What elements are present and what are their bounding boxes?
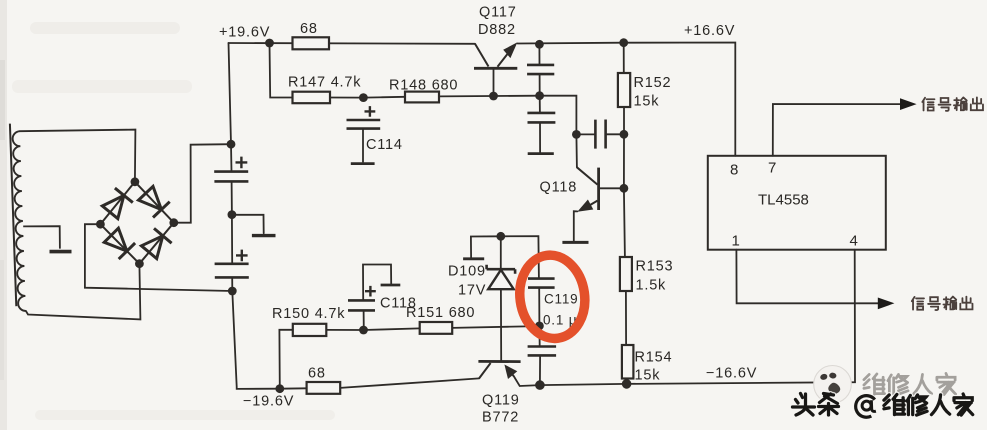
red label signal output 1 [922,97,983,110]
ground C118 stub [381,284,401,287]
wire D109 vertical [500,236,502,361]
capacitor C119 [528,279,555,288]
wire Q119 collector to rail [514,376,540,386]
ground D109 stub [463,257,484,260]
diode bridge bottom-right [139,223,173,264]
ground end C114 [362,129,364,163]
resistor R151 [420,322,453,334]
transformer T1 [10,124,72,311]
resistor R148 [405,92,439,103]
arrow signal out 2 [878,298,895,310]
watermark paw logo [814,366,852,404]
wire lower cap leads [538,326,541,385]
resistor 68 top [293,37,330,49]
wire node3 to bridge left [85,224,232,291]
svg-text:R151 680: R151 680 [406,305,475,321]
svg-text:D882: D882 [478,22,516,38]
svg-text:+16.6V: +16.6V [684,23,735,39]
watermark black text halo [793,394,839,416]
wire mid column caps [231,144,232,291]
svg-text:R150 4.7k: R150 4.7k [272,306,345,322]
arrow signal out 1 [900,98,917,110]
svg-text:R152: R152 [634,75,672,91]
scan artifacts [0,0,335,430]
diode bridge bottom-left [100,224,139,264]
resistor R152 [618,73,630,107]
transformer winding [13,131,26,311]
svg-text:4: 4 [850,233,858,250]
diode bridge top-right [135,182,174,223]
svg-text:15k: 15k [635,368,661,384]
node dots [96,38,631,393]
wire R150 down lead [279,330,292,389]
wire hcap leads [576,133,624,135]
wire node3 to -19.6V corner [232,291,279,389]
resistor R154 [622,345,634,379]
transistor Q119 [478,361,520,379]
svg-text:8: 8 [730,162,738,179]
plus polarity marks [236,106,376,296]
transformer core [10,124,16,307]
wire IC pin7 out [773,104,901,156]
wire top rail left [229,42,476,45]
svg-text:−16.6V: −16.6V [706,366,757,382]
ground node2 stub [252,234,276,237]
zener diode D109 [487,265,515,290]
wire C118 column [363,265,391,331]
highlight circle around C119 [514,251,590,343]
watermark @ [856,396,876,418]
wire Q118 emitter to ground [574,211,578,241]
wire cap column x540 [538,44,541,152]
svg-text:1: 1 [732,233,740,250]
wire bottom rail right [540,250,855,385]
wire Q118 base lead [599,187,624,189]
wire Q118 collector feed [575,134,578,167]
capacitor coupling horizontal [595,120,605,149]
wire bottom rail left [280,387,307,389]
svg-text:+19.6V: +19.6V [219,25,270,41]
svg-text:R153: R153 [636,259,674,275]
wire R150 R151 line [326,328,452,330]
svg-text:B772: B772 [482,410,519,426]
wire IC pin1 out [736,250,879,304]
ground end cap column [528,152,554,155]
svg-text:C114: C114 [366,137,403,153]
svg-text:17V: 17V [458,283,486,299]
capacitor near Q117 lower [527,113,555,123]
svg-text:1.5k: 1.5k [636,278,667,294]
capacitor lower output electrolytic [528,347,557,356]
diode bridge top-left [100,182,134,224]
wire Q119 emitter run [340,378,479,388]
svg-text:R148 680: R148 680 [389,78,458,94]
svg-text:−19.6V: −19.6V [243,394,294,410]
wire D109 node stub left [471,236,501,257]
capacitor near Q117 upper [527,65,554,74]
wire transformer bottom [26,264,140,320]
wire R151 right lead [452,326,539,328]
svg-text:Q117: Q117 [479,5,517,21]
svg-text:7: 7 [768,160,776,177]
svg-text:15k: 15k [634,94,660,110]
svg-text:68: 68 [308,366,326,382]
transistor Q117 [474,42,517,68]
capacitor C top-left electrolytic [214,172,248,182]
svg-text:R154: R154 [635,350,673,366]
resistor R147 [293,92,331,104]
svg-text:R147 4.7k: R147 4.7k [288,75,361,91]
resistor R153 [620,257,632,291]
wire R147 R148 line [330,96,540,98]
watermark gray text [864,373,956,394]
watermark black text 头条 [793,394,839,416]
svg-text:Q119: Q119 [482,393,520,409]
wire transformer top [20,130,135,182]
wire R152 column [624,43,627,384]
svg-text:Q118: Q118 [540,180,578,196]
svg-text:D109: D109 [448,264,486,280]
wire D109 node to C119 [501,236,539,278]
red label signal output 2 [912,297,973,310]
IC U1 TL4558 box [708,156,886,250]
transformer center tap ground [23,226,60,248]
wire C119 to node [538,288,540,326]
svg-text:68: 68 [300,21,318,37]
capacitor C bottom-left electrolytic [215,264,249,278]
wire bridge right feed [174,144,231,223]
wire +19.6V vertical to bridge node [229,43,232,144]
ground Q118 [562,241,588,244]
svg-text:C119: C119 [544,292,578,307]
resistor 68 bottom [307,382,341,394]
wire node2h to hcap [540,96,577,135]
capacitor C114 [347,120,381,129]
wire Q117 base [493,68,495,96]
capacitor C118 [348,300,375,310]
bridge rectifier [100,182,173,264]
transistor Q118 [577,167,599,212]
watermark black text 维修人家 [884,394,973,415]
svg-text:TL4558: TL4558 [758,192,809,209]
wire top rail right [518,43,736,156]
wire R147 feed [270,43,293,98]
resistor R150 [293,324,327,336]
wire ground stub node2 [232,215,264,233]
